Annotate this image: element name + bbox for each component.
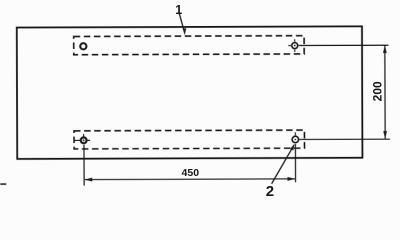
leader arrowhead 2 bbox=[290, 144, 295, 151]
hole top-right centerline ticks bbox=[288, 39, 294, 52]
arrowhead right (450) bbox=[287, 177, 295, 181]
hole bottom-left bbox=[81, 137, 87, 143]
slot 1 dashed outline (top) bbox=[74, 36, 304, 55]
arrowhead up (200) bbox=[383, 45, 387, 53]
hole bottom-left centerline ticks bbox=[74, 134, 90, 140]
extension line from top-right hole to 200 dimension bbox=[299, 44, 389, 46]
svg-text:1: 1 bbox=[175, 3, 182, 17]
dimension line 450 (horizontal) bbox=[85, 178, 295, 181]
svg-text:450: 450 bbox=[182, 167, 200, 179]
extension line below bottom-left hole to 450 dimension bbox=[83, 145, 85, 186]
stray mark bottom-left edge bbox=[0, 183, 6, 185]
hole top-right bbox=[292, 43, 298, 49]
svg-text:2: 2 bbox=[266, 183, 274, 200]
hole bottom-right centerline tick bbox=[294, 132, 296, 135]
arrowhead down (200) bbox=[383, 131, 387, 139]
leader line for label 1 bbox=[179, 13, 184, 31]
extension line below bottom-right hole to 450 dimension bbox=[294, 144, 296, 182]
arrowhead left (450) bbox=[84, 178, 92, 182]
plate outline bbox=[17, 26, 363, 159]
leader arrowhead 1 bbox=[183, 28, 187, 35]
slot 2 dashed outline (bottom) bbox=[74, 130, 304, 149]
hole bottom-right bbox=[292, 136, 298, 142]
svg-text:200: 200 bbox=[371, 81, 385, 101]
dimension line 200 (vertical) bbox=[384, 46, 386, 139]
leader line for label 2 bbox=[271, 147, 292, 183]
hole top-left bbox=[80, 43, 86, 49]
extension line from bottom-right hole to 200 dimension bbox=[299, 138, 390, 140]
